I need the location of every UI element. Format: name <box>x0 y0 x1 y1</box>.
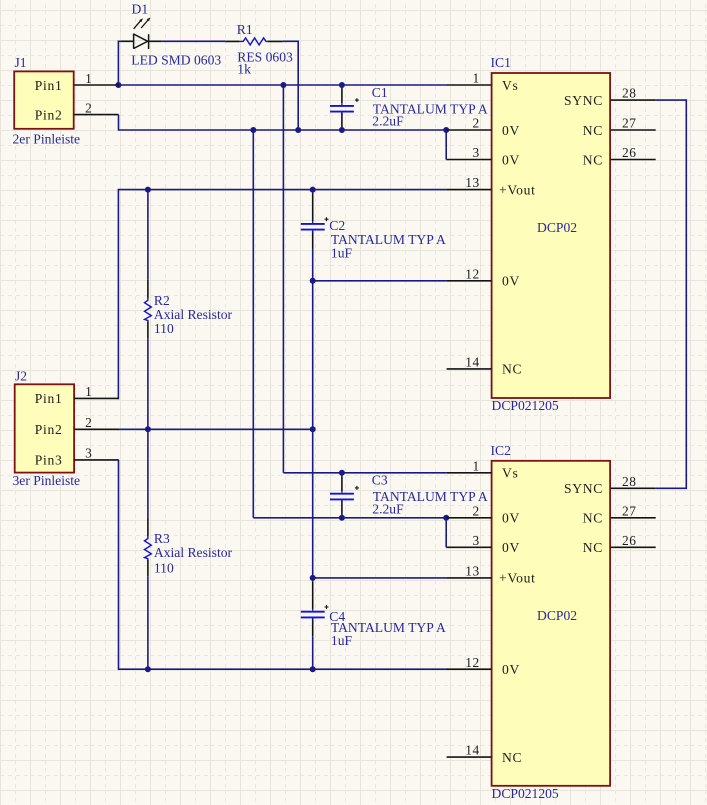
svg-text:NC: NC <box>583 511 603 526</box>
svg-text:0V: 0V <box>502 274 520 289</box>
J1 pin 2 <box>35 100 119 122</box>
svg-text:DCP02: DCP02 <box>537 608 577 623</box>
junction <box>250 127 256 133</box>
svg-text:0V: 0V <box>502 662 520 677</box>
svg-text:28: 28 <box>622 86 637 101</box>
capacitor C1 <box>330 85 359 130</box>
IC1 pin 1 Vs <box>447 71 519 93</box>
junction <box>339 515 345 521</box>
svg-text:1: 1 <box>473 71 480 86</box>
svg-text:27: 27 <box>622 503 637 518</box>
svg-text:13: 13 <box>465 175 480 190</box>
svg-text:26: 26 <box>622 533 637 548</box>
svg-text:R3: R3 <box>154 531 170 546</box>
wire 0V column to IC2 (V3) <box>253 130 446 547</box>
wire IC1 pin12 row <box>313 280 447 282</box>
svg-text:2.2uF: 2.2uF <box>372 114 404 129</box>
svg-text:J1: J1 <box>15 55 27 70</box>
op-amp/converter IC1 <box>491 55 611 398</box>
junction <box>310 426 316 432</box>
svg-text:Axial Resistor: Axial Resistor <box>154 307 233 322</box>
svg-text:3: 3 <box>473 533 480 548</box>
svg-text:2: 2 <box>85 100 92 115</box>
IC2 pin 26 NC <box>583 533 656 555</box>
junction <box>310 278 316 284</box>
IC2 pin 1 Vs <box>447 458 519 480</box>
wire Vs1 net (row A) <box>118 84 446 86</box>
svg-text:110: 110 <box>154 321 174 336</box>
IC1 pin 12 0V <box>447 266 520 288</box>
svg-text:0V: 0V <box>502 540 520 555</box>
capacitor C2 <box>301 190 329 281</box>
svg-text:Pin1: Pin1 <box>35 78 63 93</box>
svg-text:13: 13 <box>465 564 480 579</box>
junction <box>115 82 121 88</box>
label RES 0603 <box>237 49 293 64</box>
wire J2 pin3 / bottom 0V net (row I) <box>118 460 448 669</box>
svg-text:NC: NC <box>583 152 603 167</box>
svg-text:1: 1 <box>85 384 92 399</box>
svg-text:NC: NC <box>583 540 603 555</box>
svg-text:R2: R2 <box>154 293 170 308</box>
junction <box>339 82 345 88</box>
IC2 pin 13 +Vout <box>447 564 536 586</box>
label 2er Pinleiste <box>13 131 81 146</box>
label TANTALUM TYP A (C3) <box>373 489 488 504</box>
op-amp/converter IC2 <box>491 443 611 786</box>
label 2.2uF (C1) <box>372 114 404 129</box>
svg-text:28: 28 <box>622 474 637 489</box>
svg-text:Pin1: Pin1 <box>35 391 63 406</box>
IC1 pin 2 0V <box>447 116 520 138</box>
svg-text:+Vout: +Vout <box>499 571 536 586</box>
label D1 <box>132 2 149 17</box>
junction <box>145 426 151 432</box>
svg-text:14: 14 <box>465 355 480 370</box>
svg-text:110: 110 <box>154 560 174 575</box>
svg-text:2.2uF: 2.2uF <box>372 502 404 517</box>
label 3er Pinleiste <box>13 473 81 488</box>
label DCP021205 (IC2) <box>492 786 559 801</box>
wire Vs column to IC2 (V4) <box>283 85 446 473</box>
svg-text:1uF: 1uF <box>331 633 353 648</box>
label LED SMD 0603 <box>131 52 221 67</box>
svg-text:Vs: Vs <box>502 78 519 93</box>
IC2 pin 27 NC <box>583 503 656 525</box>
svg-text:12: 12 <box>465 655 480 670</box>
svg-text:DCP021205: DCP021205 <box>492 398 559 413</box>
svg-text:26: 26 <box>622 145 637 160</box>
junction <box>443 127 449 133</box>
svg-text:Pin3: Pin3 <box>35 453 63 468</box>
IC2 pin 3 0V <box>447 533 520 555</box>
wire +Vout2 row (row H) <box>313 577 447 579</box>
svg-text:Pin2: Pin2 <box>35 107 63 122</box>
junction <box>295 127 301 133</box>
connector J2 <box>15 369 74 473</box>
label C3 <box>372 473 388 488</box>
junction <box>145 666 151 672</box>
svg-text:3: 3 <box>473 145 480 160</box>
wire C2/C4 column (V6) <box>312 281 314 578</box>
svg-text:Axial Resistor: Axial Resistor <box>154 545 233 560</box>
resistor R3 <box>145 429 152 669</box>
capacitor C4 <box>301 578 329 669</box>
wire +Vout1 net (row C) <box>118 190 447 399</box>
svg-text:NC: NC <box>502 362 522 377</box>
wire J2 pin2 row (row D) <box>118 428 313 430</box>
svg-text:1: 1 <box>85 71 92 86</box>
label 110 (R3) <box>154 560 174 575</box>
label C4 <box>329 609 345 624</box>
wire LED/R1 top net <box>118 41 298 130</box>
svg-text:J2: J2 <box>15 369 27 384</box>
J2 pin 3 <box>35 446 119 468</box>
label Axial Resistor (R3) <box>154 545 233 560</box>
svg-text:C3: C3 <box>372 473 388 488</box>
svg-text:0V: 0V <box>502 123 520 138</box>
label DCP021205 (IC1) <box>492 398 559 413</box>
svg-text:2: 2 <box>85 415 92 430</box>
svg-text:IC2: IC2 <box>491 443 512 458</box>
IC2 pin 2 0V <box>447 503 520 525</box>
J2 pin 1 <box>35 384 119 406</box>
label R2 <box>154 293 170 308</box>
svg-text:3er Pinleiste: 3er Pinleiste <box>13 473 81 488</box>
svg-text:2er Pinleiste: 2er Pinleiste <box>13 131 81 146</box>
junction <box>280 82 286 88</box>
junction <box>339 470 345 476</box>
junction <box>310 666 316 672</box>
svg-text:C1: C1 <box>372 85 388 100</box>
svg-text:14: 14 <box>465 743 480 758</box>
svg-text:D1: D1 <box>132 2 149 17</box>
IC1 pin 3 0V <box>447 145 520 167</box>
svg-text:NC: NC <box>583 123 603 138</box>
svg-text:Vs: Vs <box>502 466 519 481</box>
IC2 pin 12 0V <box>447 655 520 677</box>
wire SYNC net <box>656 100 687 488</box>
label 1uF (C2) <box>331 246 353 261</box>
capacitor C3 <box>330 473 359 518</box>
svg-text:0V: 0V <box>502 511 520 526</box>
IC1 pin 27 NC <box>583 116 656 138</box>
svg-text:DCP02: DCP02 <box>537 220 577 235</box>
resistor R1 <box>225 38 282 45</box>
label 1uF (C4) <box>331 633 353 648</box>
svg-text:3: 3 <box>85 446 92 461</box>
svg-text:SYNC: SYNC <box>564 93 603 108</box>
svg-text:2: 2 <box>473 503 480 518</box>
IC2 pin 28 SYNC <box>564 474 656 496</box>
svg-text:1k: 1k <box>237 61 251 76</box>
svg-text:DCP021205: DCP021205 <box>492 786 559 801</box>
IC1 pin 14 NC <box>447 355 523 377</box>
svg-text:2: 2 <box>473 116 480 131</box>
label R1 <box>237 22 253 37</box>
svg-text:27: 27 <box>622 116 637 131</box>
IC1 pin 28 SYNC <box>564 86 656 108</box>
svg-text:0V: 0V <box>502 152 520 167</box>
svg-text:12: 12 <box>465 266 480 281</box>
label 2.2uF (C3) <box>372 502 404 517</box>
resistor R2 <box>145 190 152 430</box>
IC1 pin 13 +Vout <box>447 175 536 197</box>
IC2 pin 14 NC <box>447 743 523 765</box>
svg-text:SYNC: SYNC <box>564 481 603 496</box>
junction <box>339 127 345 133</box>
label TANTALUM TYP A (C2) <box>331 232 446 247</box>
svg-text:IC1: IC1 <box>491 55 511 70</box>
svg-text:1uF: 1uF <box>331 246 353 261</box>
label 1k <box>237 61 251 76</box>
IC1 pin 26 NC <box>583 145 656 167</box>
svg-text:+Vout: +Vout <box>499 182 536 197</box>
junction <box>310 187 316 193</box>
label 110 (R2) <box>154 321 174 336</box>
junction <box>145 187 151 193</box>
label TANTALUM TYP A (C4) <box>331 620 446 635</box>
J2 pin 2 <box>35 415 119 437</box>
junction <box>310 575 316 581</box>
wire 0V1 net (row B) <box>118 115 447 160</box>
svg-text:R1: R1 <box>237 22 253 37</box>
connector J1 <box>14 55 73 129</box>
label TANTALUM TYP A (C1) <box>373 101 488 116</box>
svg-text:LED SMD 0603: LED SMD 0603 <box>131 52 221 67</box>
label Axial Resistor (R2) <box>154 307 233 322</box>
svg-text:Pin2: Pin2 <box>35 422 63 437</box>
label C1 <box>372 85 388 100</box>
LED D1 <box>121 17 162 49</box>
svg-text:1: 1 <box>473 458 480 473</box>
junction <box>443 515 449 521</box>
svg-text:NC: NC <box>502 750 522 765</box>
label R3 <box>154 531 170 546</box>
label C2 <box>329 218 345 233</box>
J1 pin 1 <box>35 71 119 93</box>
